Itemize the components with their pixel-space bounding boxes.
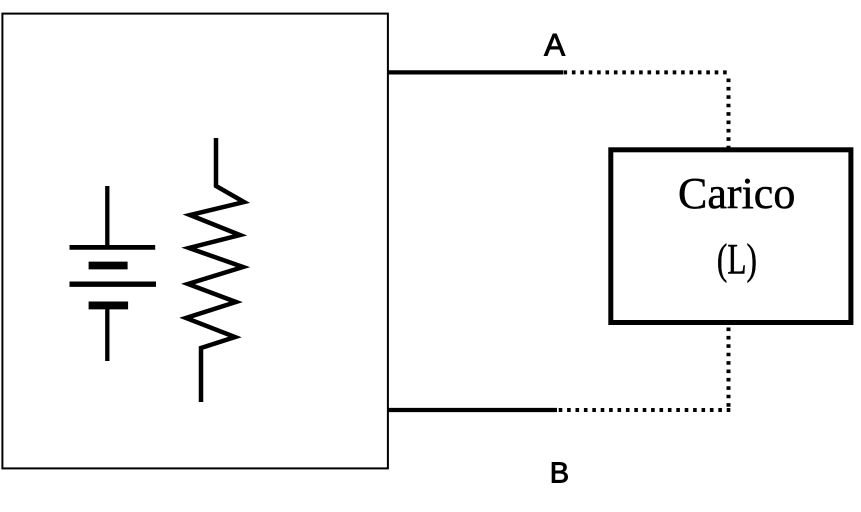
wire: bottom dotted horizontal segment xyxy=(559,408,731,412)
svg-text:A: A xyxy=(544,27,565,63)
battery long plate (positive, lower) xyxy=(70,282,157,287)
wire: top solid segment from source box to node A xyxy=(388,70,563,74)
svg-text:B: B xyxy=(550,458,569,490)
battery short plate (negative, upper) xyxy=(89,262,128,270)
battery short plate (negative, lower) xyxy=(89,301,129,309)
battery BT1 xyxy=(70,186,157,361)
battery top lead wire xyxy=(105,186,109,249)
battery bottom lead wire xyxy=(105,305,109,361)
svg-text:Carico: Carico xyxy=(678,169,795,218)
wire: bottom solid segment from node B to source box xyxy=(388,408,557,412)
wire: top dotted vertical segment to load xyxy=(727,79,731,148)
svg-text:(L): (L) xyxy=(717,236,757,284)
wire: top dotted horizontal segment xyxy=(564,70,731,74)
wire: bottom dotted vertical segment from load xyxy=(727,328,731,408)
resistor R (internal resistance, zigzag) xyxy=(186,138,244,402)
load box (Carico) xyxy=(611,150,851,323)
source box (generator enclosure) xyxy=(2,14,388,469)
battery long plate (positive, upper) xyxy=(70,245,156,250)
